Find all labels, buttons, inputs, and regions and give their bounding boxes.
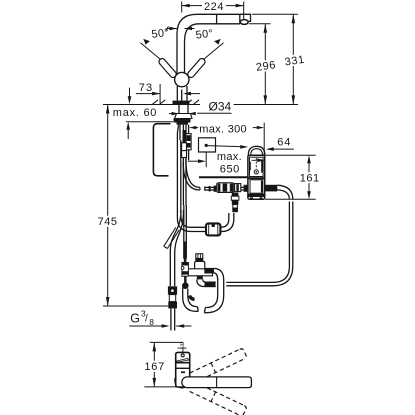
hose weight [206, 223, 220, 235]
hose curve to chain [183, 159, 200, 190]
bottom view: 167 dimension [144, 342, 242, 387]
counter line [103, 104, 200, 106]
svg-text:650: 650 [220, 163, 240, 175]
extension line 331 top [252, 13, 298, 15]
dashed swivel arm down [190, 382, 247, 415]
svg-text:50°: 50° [151, 27, 170, 41]
svg-text:max.: max. [217, 151, 242, 163]
dia 34 arrows [169, 112, 196, 115]
dimension 296 [264, 24, 268, 105]
lever handle left [141, 39, 177, 78]
coupling below chain [231, 193, 239, 213]
dimension 331 [292, 14, 296, 104]
big loop bottom [226, 266, 292, 286]
supply tube tee fittings [168, 286, 177, 308]
svg-text:8: 8 [149, 317, 154, 327]
svg-text:167: 167 [144, 361, 165, 373]
coupling down tube [204, 268, 223, 296]
mounting shaft below counter [174, 105, 193, 125]
base flange [173, 101, 190, 105]
counter hatch [153, 100, 200, 104]
valve elbow to loop [197, 279, 216, 287]
bottom view faucet body [175, 342, 190, 388]
spout tube [177, 14, 251, 73]
svg-text:73: 73 [139, 82, 153, 94]
svg-text:161: 161 [300, 172, 320, 184]
thick line under 650 [199, 176, 248, 178]
supply tube bottom [171, 308, 175, 330]
svg-text:/: / [145, 314, 148, 325]
tube to tee [170, 210, 183, 286]
left small valve [181, 242, 189, 290]
U break left arc [183, 288, 199, 312]
unit outlet hose right [265, 185, 293, 200]
check valve [184, 254, 213, 280]
solenoid valve unit [248, 146, 265, 199]
dimension max 300 [189, 123, 264, 155]
lever handle right [188, 39, 224, 78]
cut diagonal tube [164, 228, 180, 249]
svg-text:max. 60: max. 60 [113, 107, 157, 119]
bottom view spout arm [182, 377, 252, 388]
dimension 745 [103, 105, 170, 307]
left C loop tube [153, 124, 170, 176]
extension line 296 top [249, 23, 271, 25]
tube to small valve [184, 205, 187, 259]
faucet body above counter [177, 86, 187, 104]
svg-text:745: 745 [98, 216, 118, 228]
dimension 224 [182, 2, 244, 21]
weight tube run [177, 213, 233, 232]
svg-text:Ø34: Ø34 [209, 99, 232, 113]
svg-text:224: 224 [204, 1, 224, 13]
ball joint [175, 72, 189, 86]
label G 3/8 [129, 309, 162, 327]
svg-text:50°: 50° [195, 28, 214, 42]
svg-text:max. 300: max. 300 [199, 124, 247, 136]
svg-text:64: 64 [277, 137, 291, 149]
svg-text:R: R [180, 342, 184, 348]
dimension 73 [136, 84, 200, 104]
shaft and hose bundle [177, 125, 191, 218]
U break right arc [204, 296, 223, 313]
angle 50 deg arrows at pipe [166, 26, 195, 30]
G3/8 arrows [162, 324, 192, 328]
dashed swivel arm up [190, 348, 247, 383]
dim max60 arrows [126, 88, 173, 139]
dimension 161 [307, 155, 311, 199]
161 bottom reference line [265, 198, 316, 200]
spray nozzle [240, 20, 248, 25]
161 top reference line [265, 154, 316, 156]
max650 leader arrow [188, 159, 206, 163]
outlet downpipe [289, 202, 292, 267]
svg-text:G: G [130, 312, 140, 326]
control box with dot [199, 138, 249, 167]
dimension 64 [266, 147, 294, 151]
hose chain with couplings [205, 183, 248, 193]
